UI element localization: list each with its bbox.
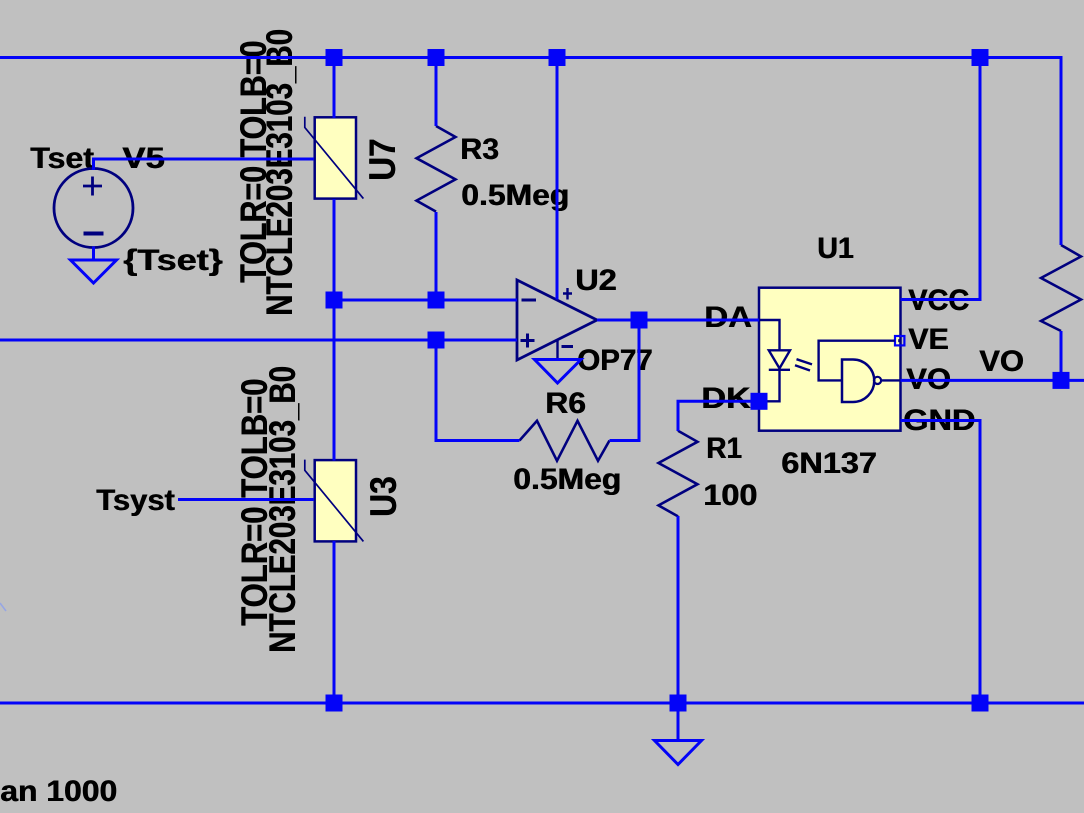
junction ground rail / R1 ground: [670, 695, 687, 712]
value 0.5Meg of R3: [461, 181, 569, 211]
thermistor U7 body (NTC rectangle): [315, 117, 356, 198]
wire bottom ground rail: [0, 702, 1084, 705]
ground symbol below R1: [655, 741, 702, 765]
label U3 (thermistor): [365, 477, 402, 517]
junction ground rail / GND pin: [972, 695, 989, 712]
attribute TOLR=0 TOLB=0 of thermistor U3: [236, 379, 273, 626]
resistor R6 zigzag (horizontal): [520, 421, 610, 461]
optocoupler U1 body box: [759, 288, 901, 431]
label V5 (voltage source V5 name): [122, 144, 165, 174]
wire Tsyst to thermistor U3: [178, 498, 314, 501]
resistor R1 zigzag: [659, 431, 698, 517]
U1 anode internal lead from DA pin: [759, 320, 780, 350]
wire stub V5 top: [92, 158, 95, 171]
label U7 (thermistor): [364, 139, 401, 181]
op-amp U2 negative supply minus sign: [562, 345, 574, 348]
clipped light blue mark at left edge: [0, 603, 6, 611]
U1 NAND output bubble: [874, 377, 881, 384]
junction top rail / R3: [428, 49, 445, 66]
value {Tset} of V5: [123, 246, 222, 276]
pin label DK of U1: [701, 384, 750, 414]
wire feedback left vertical and horizontal to R6: [436, 340, 520, 441]
thermistor U7 diagonal NTC stroke: [305, 117, 364, 199]
wire VO output net to right edge: [901, 379, 1084, 382]
attribute NTCLE203E3103_B0 of thermistor U7: [261, 29, 298, 316]
wire non-inverting input rail from left edge: [0, 339, 517, 342]
wire VCC pin to top rail: [901, 58, 981, 300]
ground symbol below op-amp U2: [535, 360, 582, 384]
wire feedback right from output junction down to R6: [610, 320, 640, 441]
wire U7 bottom to junction and down to U3: [333, 199, 336, 461]
clipped text an 1000 (resistor value): [0, 777, 117, 807]
ground symbol below V5: [71, 260, 117, 283]
U1 cathode internal lead to DK pin: [759, 370, 780, 402]
op-amp U2 negative supply pin stub: [556, 341, 558, 360]
op-amp U2 triangle: [517, 280, 597, 360]
junction inverting row / R3: [428, 292, 445, 309]
label U2: [575, 266, 616, 296]
wire R3 bottom lead: [435, 212, 438, 300]
U1 VE pin small square: [895, 336, 904, 345]
op-amp U2 positive supply plus sign: [563, 288, 572, 300]
wire R3 top lead: [435, 58, 438, 127]
wire V5 bottom stem to ground: [92, 247, 95, 261]
pin label VO of U1: [906, 365, 951, 395]
op-amp U2 inverting input minus sign: [522, 299, 537, 302]
voltage source V5 circle body: [54, 169, 133, 248]
junction VO net / right resistor: [1053, 372, 1070, 389]
resistor R3 zigzag: [417, 126, 456, 212]
V5 minus sign: [84, 232, 104, 236]
wire Tset source to thermistor U7: [94, 158, 315, 161]
junction top rail / op-amp supply: [549, 49, 566, 66]
value 100 of R1: [703, 481, 757, 511]
label R6: [545, 389, 586, 419]
attribute TOLR=0 TOLB=0 of thermistor U7: [235, 41, 272, 283]
junction top rail / VCC: [972, 49, 989, 66]
wire DK pin to R1 top: [678, 401, 759, 431]
value OP77 of U2: [577, 346, 652, 376]
wire ground stem below R1: [677, 703, 680, 740]
wire right resistor bottom to VO junction: [1060, 331, 1063, 380]
wire U7 top lead: [333, 58, 336, 119]
thermistor U3 body (NTC rectangle): [315, 460, 356, 541]
V5 plus sign: [83, 177, 102, 196]
wire inverting input row: [334, 299, 517, 302]
attribute NTCLE203E3103_B0 of thermistor U3: [264, 366, 301, 653]
U1 light coupling marks: [795, 359, 812, 370]
junction top rail / U7: [326, 49, 343, 66]
wire top supply rail with corner to right resistor: [0, 58, 1061, 246]
wire op-amp positive supply to top rail: [556, 58, 559, 300]
U1 internal NAND gate body: [842, 360, 874, 403]
junction non-inverting rail / feedback: [428, 332, 445, 349]
wire op-amp output to U1 DA pin: [597, 319, 759, 322]
junction DK pin: [751, 393, 768, 410]
net label Tset: [30, 144, 94, 174]
value 6N137 of U1: [781, 449, 877, 479]
label U1: [817, 234, 854, 264]
junction inverting row / U7-U3: [326, 292, 343, 309]
wire U3 bottom to ground rail: [333, 541, 336, 703]
wire R1 bottom to ground rail: [677, 516, 680, 703]
junction ground rail / thermistor chain: [326, 695, 343, 712]
label R1: [706, 434, 742, 464]
pin label DA of U1: [704, 303, 752, 333]
U1 VO internal output lead: [881, 379, 901, 381]
thermistor U3 diagonal NTC stroke: [305, 460, 364, 542]
U1 VE internal wire to NAND input: [819, 341, 895, 381]
net label VO: [979, 347, 1024, 377]
value 0.5Meg of R6: [513, 465, 621, 495]
op-amp U2 non-inverting input plus sign: [521, 334, 535, 348]
resistor (right, partially labelled an 1000) zigzag: [1041, 245, 1081, 331]
net label Tsyst: [96, 486, 175, 516]
U1 internal LED cathode bar: [769, 369, 790, 371]
pin label VCC of U1: [908, 286, 969, 316]
pin label VE of U1: [908, 325, 949, 355]
label R3: [460, 135, 499, 165]
wire GND pin down to ground rail: [901, 421, 981, 704]
pin label GND of U1: [903, 406, 975, 436]
U1 internal LED triangle: [769, 350, 790, 368]
junction op-amp output: [631, 312, 648, 329]
